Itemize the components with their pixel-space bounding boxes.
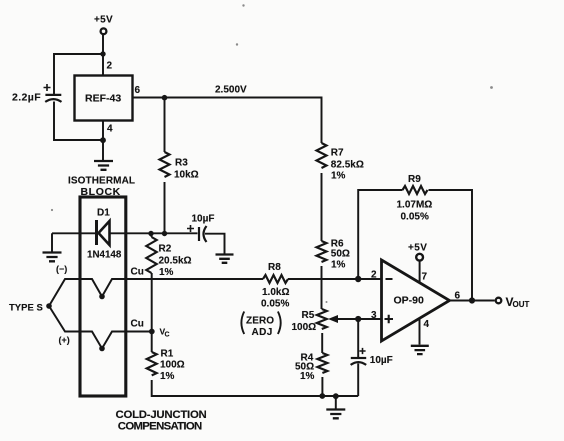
svg-text:7: 7 <box>422 272 428 283</box>
svg-text:+5V: +5V <box>408 243 427 254</box>
svg-text:1%: 1% <box>331 260 346 271</box>
svg-text:OUT: OUT <box>513 300 530 309</box>
svg-text:Cu: Cu <box>131 319 144 330</box>
svg-text:R5: R5 <box>302 310 315 321</box>
svg-text:R1: R1 <box>161 349 174 360</box>
svg-text:(+): (+) <box>59 335 70 345</box>
svg-text:ZERO: ZERO <box>246 316 274 327</box>
svg-text:10µF: 10µF <box>192 214 215 225</box>
svg-text:100Ω: 100Ω <box>292 322 317 333</box>
svg-text:1%: 1% <box>300 371 315 382</box>
svg-text:TYPE S: TYPE S <box>9 303 43 314</box>
svg-text:2.500V: 2.500V <box>215 85 247 96</box>
svg-text:COMPENSATION: COMPENSATION <box>118 421 202 433</box>
svg-text:C: C <box>165 332 170 339</box>
svg-text:4: 4 <box>107 124 113 135</box>
svg-text:82.5kΩ: 82.5kΩ <box>331 160 364 171</box>
svg-text:R9: R9 <box>408 174 421 185</box>
svg-text:2: 2 <box>107 61 113 72</box>
svg-text:(−): (−) <box>56 264 67 274</box>
svg-text:10µF: 10µF <box>370 355 393 366</box>
svg-text:1%: 1% <box>159 267 174 278</box>
svg-text:R7: R7 <box>331 148 344 159</box>
svg-text:100Ω: 100Ω <box>160 360 185 371</box>
svg-text:3: 3 <box>371 310 377 321</box>
svg-text:REF-43: REF-43 <box>85 93 121 105</box>
svg-text:Cu: Cu <box>131 267 144 278</box>
svg-text:0.05%: 0.05% <box>261 299 289 310</box>
svg-text:ADJ: ADJ <box>252 327 273 338</box>
svg-text:2.2µF: 2.2µF <box>12 92 41 104</box>
svg-text:+5V: +5V <box>94 15 113 26</box>
svg-text:0.05%: 0.05% <box>401 212 429 223</box>
svg-text:COLD-JUNCTION: COLD-JUNCTION <box>116 409 207 421</box>
svg-text:R3: R3 <box>175 158 188 169</box>
svg-text:OP-90: OP-90 <box>394 295 425 307</box>
svg-text:1.0kΩ: 1.0kΩ <box>262 287 289 298</box>
svg-text:50Ω: 50Ω <box>331 249 350 260</box>
svg-text:2: 2 <box>371 270 377 281</box>
svg-text:4: 4 <box>424 319 430 330</box>
svg-text:1%: 1% <box>160 371 175 382</box>
svg-text:1%: 1% <box>331 171 346 182</box>
svg-text:R2: R2 <box>159 244 172 255</box>
svg-text:20.5kΩ: 20.5kΩ <box>159 256 192 267</box>
svg-text:1.07MΩ: 1.07MΩ <box>397 200 433 211</box>
svg-text:R8: R8 <box>268 262 281 273</box>
svg-text:6: 6 <box>455 291 461 302</box>
svg-text:10kΩ: 10kΩ <box>174 170 199 181</box>
svg-text:D1: D1 <box>97 208 110 219</box>
svg-text:6: 6 <box>135 85 141 96</box>
svg-text:BLOCK: BLOCK <box>81 186 121 198</box>
svg-text:1N4148: 1N4148 <box>87 250 122 261</box>
